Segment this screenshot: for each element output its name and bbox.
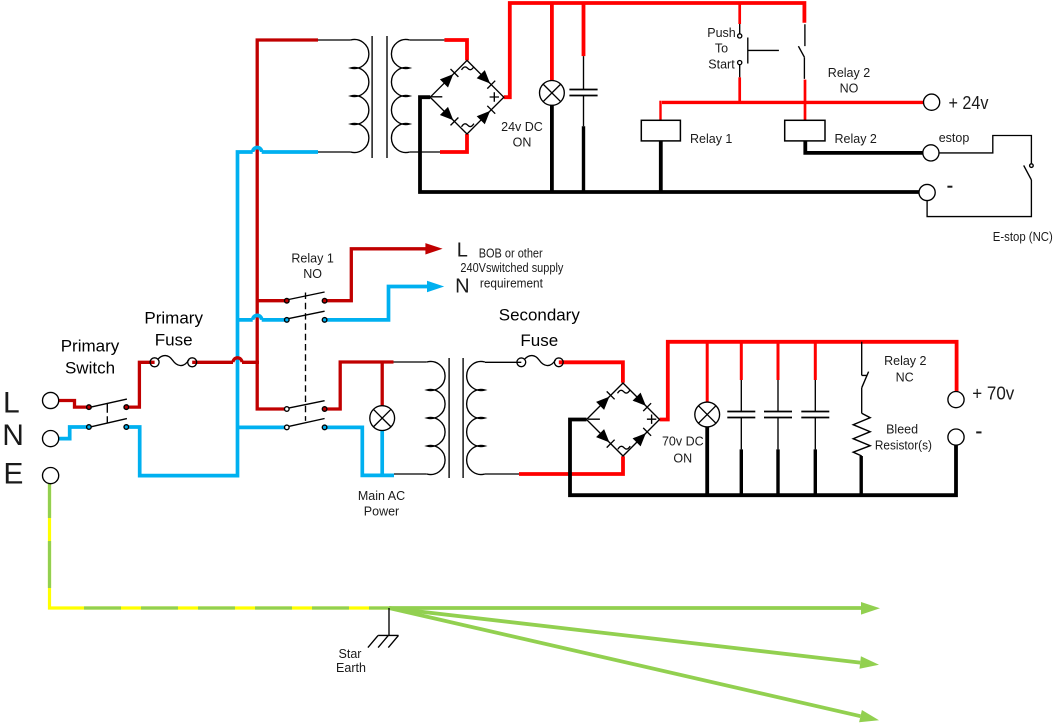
- svg-text:Switch: Switch: [65, 359, 115, 378]
- svg-text:24v DC: 24v DC: [501, 120, 543, 134]
- svg-text:Fuse: Fuse: [520, 331, 558, 350]
- svg-text:NO: NO: [840, 82, 859, 96]
- svg-text:Relay 2: Relay 2: [884, 354, 926, 368]
- svg-text:Primary: Primary: [144, 309, 203, 328]
- svg-text:Power: Power: [364, 505, 399, 519]
- svg-text:Main AC: Main AC: [358, 489, 405, 503]
- svg-text:Push: Push: [707, 26, 736, 40]
- svg-text:ON: ON: [513, 136, 532, 150]
- svg-text:E-stop (NC): E-stop (NC): [993, 230, 1053, 244]
- svg-text:NC: NC: [896, 371, 914, 385]
- svg-text:N: N: [455, 276, 469, 298]
- svg-text:+ 24v: + 24v: [949, 93, 989, 113]
- svg-text:Relay 1: Relay 1: [690, 132, 732, 146]
- svg-text:Start: Start: [708, 57, 735, 71]
- svg-text:To: To: [715, 42, 728, 56]
- svg-text:Resistor(s): Resistor(s): [875, 439, 932, 453]
- svg-text:Star: Star: [339, 647, 362, 661]
- svg-text:Secondary: Secondary: [499, 306, 580, 325]
- svg-text:ON: ON: [673, 452, 692, 466]
- svg-text:E: E: [3, 458, 23, 491]
- svg-text:requirement: requirement: [480, 277, 543, 291]
- svg-text:L: L: [3, 387, 20, 420]
- svg-text:Earth: Earth: [336, 661, 366, 675]
- svg-text:BOB or other: BOB or other: [479, 247, 543, 261]
- svg-text:240Vswitched supply: 240Vswitched supply: [460, 261, 564, 275]
- svg-text:N: N: [2, 419, 24, 452]
- svg-text:70v DC: 70v DC: [662, 435, 704, 449]
- svg-text:Relay 1: Relay 1: [291, 252, 333, 266]
- svg-text:Relay 2: Relay 2: [835, 132, 877, 146]
- svg-text:Bleed: Bleed: [886, 423, 918, 437]
- svg-text:Fuse: Fuse: [155, 331, 193, 350]
- svg-text:+ 70v: + 70v: [972, 384, 1014, 404]
- svg-text:NO: NO: [303, 267, 322, 281]
- svg-text:estop: estop: [939, 131, 970, 145]
- svg-text:Relay 2: Relay 2: [828, 66, 870, 80]
- svg-text:Primary: Primary: [61, 337, 120, 356]
- svg-text:L: L: [457, 240, 468, 262]
